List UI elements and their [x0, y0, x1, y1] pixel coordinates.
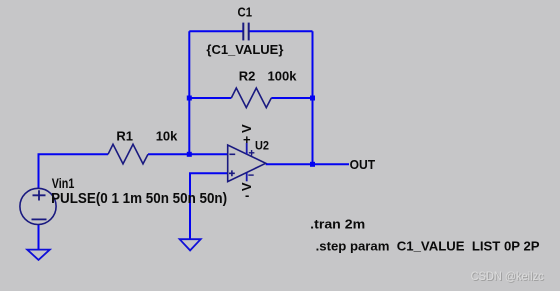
wire non-inverting input to ground	[190, 173, 228, 239]
wire R1 to op-amp inverting input	[148, 153, 228, 155]
svg-text:PULSE(0 1 1m 50n 50n 50n): PULSE(0 1 1m 50n 50n 50n)	[51, 191, 227, 207]
junction at output node	[310, 162, 315, 167]
wire output to OUT	[266, 163, 349, 165]
wire R2 left	[189, 97, 231, 99]
op-amp V+ pin plus marker	[249, 150, 255, 156]
junction at R2 left	[187, 96, 192, 101]
op-amp non-inverting input marker	[229, 170, 235, 176]
resistor R2	[231, 88, 271, 108]
svg-text:U2: U2	[255, 139, 269, 153]
op-amp V- supply pin stub	[246, 173, 248, 182]
svg-text:.step param C1_VALUE LIST 0P: .step param C1_VALUE LIST 0P 2P	[316, 238, 540, 253]
svg-text:{C1_VALUE}: {C1_VALUE}	[206, 42, 283, 57]
ground below non-inverting input	[180, 239, 201, 250]
op-amp V+ supply pin stub	[246, 143, 248, 154]
source plus marker	[33, 190, 46, 200]
svg-text:R1: R1	[116, 129, 133, 144]
wire source to R1	[39, 154, 109, 188]
op-amp inverting input marker	[229, 153, 235, 155]
capacitor C1	[243, 23, 248, 41]
op-amp U2 triangle	[228, 145, 266, 182]
wire source bottom to ground	[38, 225, 40, 250]
resistor R1	[108, 144, 148, 164]
svg-text:+: +	[243, 132, 251, 147]
voltage source Vin1 circle	[20, 188, 56, 224]
op-amp V- pin minus marker	[248, 174, 253, 176]
wire right vertical feedback	[312, 31, 314, 164]
junction at R2 right	[310, 96, 315, 101]
svg-text:.tran 2m: .tran 2m	[310, 217, 365, 232]
svg-text:-: -	[245, 188, 249, 203]
svg-text:R2: R2	[239, 69, 256, 84]
svg-text:CSDN @keilzc: CSDN @keilzc	[471, 269, 544, 283]
watermark CSDN @keilzc	[471, 269, 545, 284]
svg-text:Vin1: Vin1	[52, 176, 75, 191]
svg-text:OUT: OUT	[350, 157, 376, 172]
wire top rail left of C1	[189, 30, 243, 32]
source minus marker	[32, 218, 47, 220]
wire top rail right of C1	[249, 30, 313, 32]
svg-text:100k: 100k	[268, 69, 298, 84]
wire left vertical feedback	[188, 31, 190, 154]
ground below source	[27, 250, 50, 260]
svg-text:C1: C1	[238, 4, 253, 19]
svg-text:10k: 10k	[156, 129, 178, 144]
wire R2 right	[271, 97, 312, 99]
junction at inverting input node	[187, 152, 192, 157]
